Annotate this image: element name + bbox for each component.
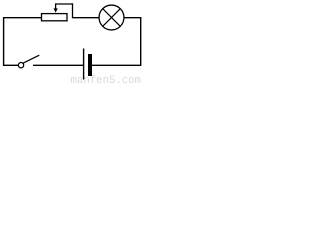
rheostat wiper arrowhead xyxy=(54,8,58,12)
wire bottom-right to battery xyxy=(92,64,141,66)
battery long plate (thin) xyxy=(83,49,85,80)
wire switch to battery xyxy=(33,64,84,66)
lamp X diagonal 1 xyxy=(103,9,121,27)
wire bottom-left to switch xyxy=(3,64,18,66)
wire right vertical xyxy=(140,17,142,66)
rheostat wiper arrow shaft xyxy=(55,4,57,10)
wire left vertical xyxy=(3,17,5,66)
switch lever xyxy=(23,55,40,63)
svg-text:manfen5.com: manfen5.com xyxy=(71,75,142,84)
battery short plate (thick) xyxy=(88,54,92,76)
wire left feed to rheostat xyxy=(3,17,42,19)
lamp X diagonal 2 xyxy=(103,9,121,27)
wire to lamp xyxy=(73,17,100,19)
rheostat R body xyxy=(42,14,68,21)
lamp L circle xyxy=(99,5,124,30)
switch pivot circle xyxy=(18,62,23,67)
wire lamp to right corner xyxy=(124,17,141,19)
wire wiper loop down xyxy=(72,3,74,18)
wire wiper loop top xyxy=(55,3,73,5)
